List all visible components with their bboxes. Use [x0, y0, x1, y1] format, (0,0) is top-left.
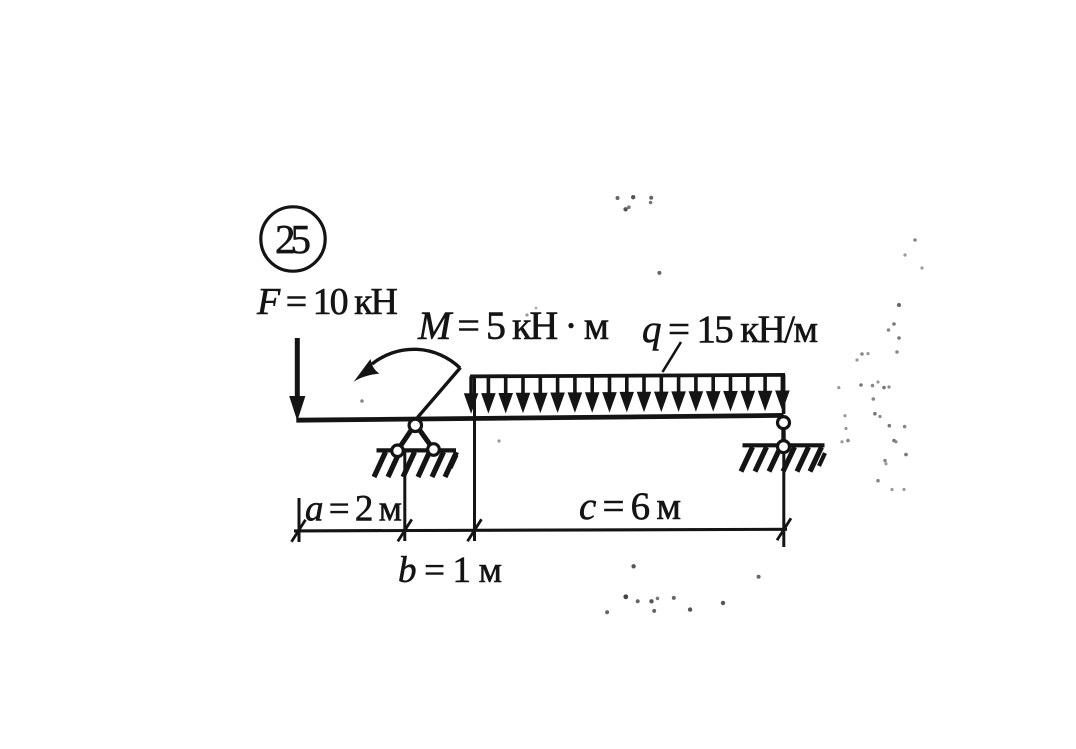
label F = 10 kN: [256, 281, 398, 323]
dimension line: [292, 377, 792, 547]
beam: [296, 415, 783, 420]
svg-text:b = 1 м: b = 1 м: [398, 550, 502, 591]
pin support: [374, 419, 457, 477]
svg-text:q = 15 кН/м: q = 15 кН/м: [642, 308, 818, 351]
svg-text:c = 6 м: c = 6 м: [579, 485, 681, 528]
label q = 15 kN/m: [642, 308, 818, 351]
dimension label c: [579, 485, 681, 528]
svg-text:M = 5 кН · м: M = 5 кН · м: [417, 303, 609, 348]
moment M arc: [354, 349, 461, 417]
q leader line: [663, 342, 682, 372]
svg-text:F = 10 кН: F = 10 кН: [256, 281, 398, 323]
roller support: [741, 417, 825, 472]
svg-text:a = 2 м: a = 2 м: [305, 489, 402, 530]
force F arrow: [289, 338, 305, 421]
dimension label b: [398, 550, 502, 591]
dimension label a: [305, 489, 402, 530]
distributed load q: [464, 375, 790, 414]
svg-text:25: 25: [275, 216, 311, 262]
badge circle 25: [261, 207, 325, 271]
label M = 5 kN·m: [417, 303, 609, 348]
